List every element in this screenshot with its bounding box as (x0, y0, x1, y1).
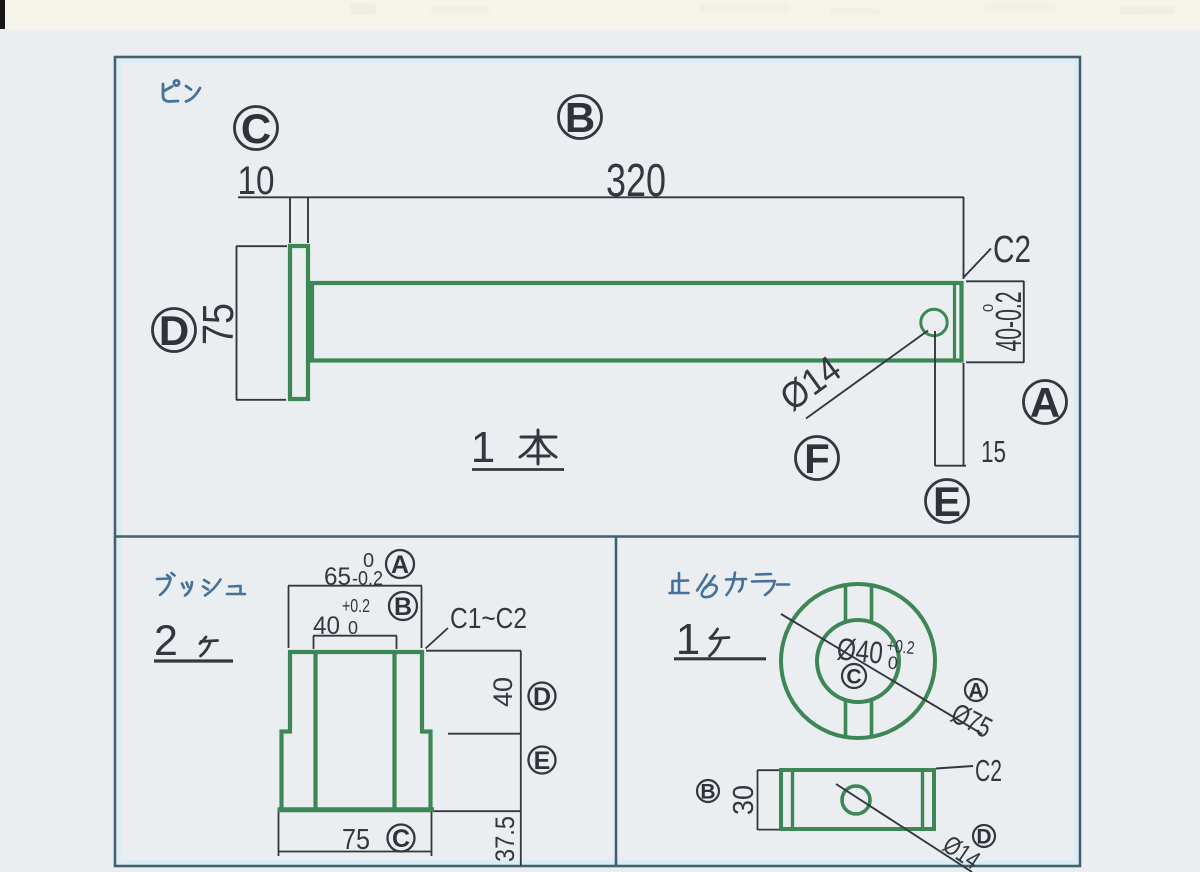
horizontal panel divider (115, 535, 1080, 538)
svg-text:65: 65 (324, 563, 351, 591)
phi40 tolerance label tilted (835, 630, 915, 675)
step tick (448, 733, 521, 735)
chamfer line left (791, 770, 794, 829)
drawing frame border (115, 57, 1080, 866)
frame inner light stripe (119, 61, 1076, 862)
small ke katakana (200, 637, 218, 656)
bush bottom line (278, 807, 435, 812)
dimension 30 top tick (758, 769, 780, 771)
svg-text:C2: C2 (993, 229, 1031, 271)
bottom extension right (434, 810, 521, 812)
phi75 leader line (781, 614, 982, 734)
svg-text:A: A (968, 680, 983, 703)
svg-text:40-0.2: 40-0.2 (988, 292, 1029, 352)
dimension 65 line (288, 585, 422, 587)
pin flange outline (290, 246, 308, 399)
svg-text:40: 40 (488, 677, 518, 707)
balloon F (796, 435, 839, 482)
collar side view rectangle (781, 770, 934, 829)
pin hole circle (921, 309, 947, 335)
quantity underline (472, 468, 564, 471)
collar inner circle (817, 620, 899, 702)
balloon A (1024, 379, 1067, 426)
right vertical dimension line (520, 651, 522, 866)
balloon A bush (386, 550, 414, 579)
extension line flange left (289, 197, 291, 243)
dimension 15 line (935, 465, 966, 467)
C2 leader collar (936, 766, 973, 769)
C1~C2 leader (426, 628, 449, 649)
C2 leader line (964, 249, 992, 278)
faint ghost smudges on scan strip (350, 3, 1175, 15)
svg-text:A: A (1030, 379, 1060, 426)
chamfer line right (921, 770, 924, 829)
bush bore right (392, 652, 396, 808)
bottom ext left (278, 812, 280, 856)
extension left 65 (288, 586, 290, 648)
kanji hon (520, 430, 556, 464)
dimension 15 extension from hole (934, 331, 936, 466)
svg-text:1: 1 (676, 615, 700, 664)
title stop collar (670, 573, 790, 598)
pin shaft outline (312, 283, 962, 361)
balloon E (926, 478, 969, 525)
dimension 40-0.2 line (1023, 281, 1025, 363)
dimension 75 top tick (236, 245, 287, 247)
svg-text:75: 75 (194, 303, 243, 345)
scanner top strip (0, 0, 1200, 30)
balloon C (235, 105, 278, 152)
small ke katakana collar (710, 629, 730, 656)
svg-text:E: E (534, 747, 551, 775)
quantity underline bush (154, 659, 233, 662)
slot line left top (844, 585, 848, 622)
balloon D bush (529, 683, 556, 712)
extension line flange right (307, 197, 309, 243)
svg-text:37.5: 37.5 (490, 816, 520, 862)
svg-text:75: 75 (342, 824, 370, 856)
svg-text:15: 15 (981, 434, 1006, 469)
balloon A collar (965, 679, 987, 703)
svg-text:1: 1 (471, 423, 495, 472)
svg-text:+0.2: +0.2 (342, 596, 370, 616)
svg-text:B: B (394, 593, 412, 621)
dimension 75 bottom tick (236, 399, 286, 401)
svg-text:30: 30 (728, 785, 760, 815)
title bush (katakana) (157, 573, 245, 596)
dimension 75 line bush (278, 851, 432, 853)
svg-text:D: D (976, 826, 991, 849)
tick left 40 (313, 636, 315, 649)
extension top right bush (426, 650, 521, 652)
svg-text:F: F (804, 435, 830, 482)
svg-text:C: C (846, 666, 861, 689)
svg-text:C2: C2 (975, 753, 1002, 788)
svg-text:C: C (241, 105, 271, 152)
svg-text:D: D (159, 307, 189, 354)
tick right 40 (396, 636, 398, 649)
svg-text:C1~C2: C1~C2 (450, 603, 527, 635)
svg-text:B: B (700, 781, 715, 804)
dimension line top (238, 196, 964, 198)
svg-text:B: B (565, 94, 595, 141)
slot line left bottom (844, 700, 848, 737)
bush bore left (313, 652, 317, 808)
svg-text:0: 0 (887, 653, 899, 674)
dimension 15 extension from end (963, 363, 965, 466)
bottom ext right (431, 812, 433, 856)
dimension 40 line (313, 635, 397, 637)
balloon D collar (973, 825, 995, 849)
bush right outline (422, 650, 431, 808)
vertical panel divider (615, 537, 618, 867)
svg-text:0: 0 (980, 304, 997, 312)
balloon C collar (842, 664, 866, 689)
quantity underline collar (674, 657, 766, 660)
phi14 leader line (806, 331, 928, 419)
dimension 40-0.2 top extension (966, 280, 1024, 282)
svg-text:C: C (392, 825, 410, 853)
svg-text:E: E (933, 478, 961, 525)
slot line right bottom (870, 700, 874, 737)
balloon B (559, 94, 602, 141)
collar outer circle (781, 584, 935, 738)
balloon C bush (388, 825, 415, 854)
balloon B collar (697, 780, 719, 804)
scanner black mark top-left (0, 0, 5, 29)
dimension 75 vertical line (236, 246, 238, 400)
bush top line (288, 650, 424, 654)
dimension 30 bottom tick (758, 829, 780, 831)
slot line right top (870, 585, 874, 622)
svg-text:D: D (533, 683, 551, 711)
balloon E bush (529, 747, 556, 776)
extension line shaft end (963, 197, 965, 279)
pin shaft chamfer line (953, 283, 956, 361)
svg-text:2: 2 (154, 617, 178, 665)
svg-text:0: 0 (363, 550, 374, 572)
dimension 30 line (757, 770, 759, 830)
balloon B bush (389, 592, 417, 621)
phi14 leader collar (836, 784, 972, 872)
collar hole circle (842, 786, 870, 814)
balloon D (153, 307, 196, 354)
bush left outline (282, 650, 291, 808)
dimension 40-0.2 bottom extension (966, 361, 1024, 363)
svg-text:A: A (391, 551, 409, 579)
extension right 65 (421, 586, 423, 648)
title pin (katakana) (163, 80, 200, 101)
